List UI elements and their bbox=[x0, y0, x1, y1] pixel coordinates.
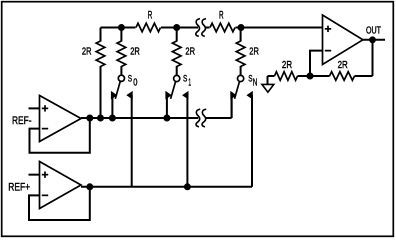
svg-text:1: 1 bbox=[188, 77, 191, 88]
svg-text:R: R bbox=[148, 10, 153, 22]
svg-text:2R: 2R bbox=[249, 46, 259, 57]
svg-text:2R: 2R bbox=[82, 46, 92, 57]
svg-text:OUT: OUT bbox=[366, 25, 381, 37]
svg-text:S: S bbox=[183, 74, 187, 85]
svg-text:2R: 2R bbox=[185, 46, 195, 57]
svg-text:REF-: REF- bbox=[12, 115, 32, 127]
svg-text:R: R bbox=[219, 10, 224, 22]
svg-text:2R: 2R bbox=[130, 46, 140, 57]
svg-text:S: S bbox=[128, 74, 132, 85]
svg-text:N: N bbox=[253, 77, 258, 88]
svg-text:2R: 2R bbox=[282, 60, 292, 71]
svg-text:REF+: REF+ bbox=[8, 182, 30, 194]
svg-text:0: 0 bbox=[133, 77, 138, 88]
svg-text:2R: 2R bbox=[338, 60, 348, 71]
